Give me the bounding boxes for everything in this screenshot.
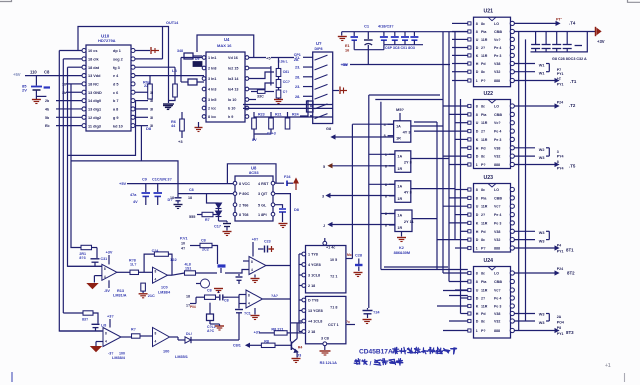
svg-text:11R: 11R bbox=[481, 121, 488, 125]
wire U8 row2 right long vertical bbox=[275, 194, 290, 342]
svg-text:h 9: h 9 bbox=[228, 115, 233, 119]
svg-text:D: D bbox=[476, 213, 479, 217]
svg-text:8T1: 8T1 bbox=[566, 248, 574, 253]
svg-text:11R: 11R bbox=[481, 305, 488, 309]
svg-text:348: 348 bbox=[177, 49, 183, 53]
svg-text:Io4 13: Io4 13 bbox=[228, 88, 238, 92]
svg-text:P4: P4 bbox=[557, 244, 561, 248]
U23 pin row 7 bbox=[468, 238, 471, 241]
U23 pin row 5 bbox=[468, 221, 471, 224]
svg-text:Pe 3: Pe 3 bbox=[494, 138, 501, 142]
U22 pin row 4 bbox=[468, 130, 471, 133]
U22 pin row 5 bbox=[468, 138, 471, 141]
svg-text:11R: 11R bbox=[481, 289, 488, 293]
svg-text:?A?: ?A? bbox=[271, 294, 278, 298]
wire emitter ground bbox=[296, 351, 298, 357]
U24 pin row 7 bbox=[468, 319, 471, 322]
svg-text:P?: P? bbox=[481, 79, 486, 83]
U22 pin row 7 bbox=[468, 155, 471, 158]
svg-text:LO: LO bbox=[494, 188, 499, 192]
svg-text:Pe 4: Pe 4 bbox=[494, 297, 501, 301]
wire R1 pin7 W1 bbox=[514, 71, 535, 73]
op-amp U13C bbox=[103, 328, 121, 347]
wire R2 pin7 W3 bbox=[514, 155, 535, 157]
capacitor second filter bbox=[157, 184, 159, 192]
svg-text:C61: C61 bbox=[283, 70, 289, 74]
IC U10 wrapper wire bbox=[78, 27, 169, 104]
red ground supply left bbox=[341, 32, 343, 36]
svg-text:8: 8 bbox=[476, 113, 478, 117]
U21 pin row 3 bbox=[468, 38, 471, 41]
svg-text:/: / bbox=[370, 361, 372, 368]
svg-text:V38: V38 bbox=[494, 230, 500, 234]
svg-text:+0?: +0? bbox=[252, 238, 259, 242]
wire U4 pin2 right bbox=[249, 67, 271, 69]
svg-text:8: 8 bbox=[476, 105, 478, 109]
svg-text:CB8i: CB8i bbox=[494, 280, 502, 284]
svg-text:D8: D8 bbox=[146, 126, 152, 131]
svg-text:3l: 3l bbox=[150, 91, 153, 95]
svg-text:seg 2: seg 2 bbox=[113, 57, 123, 61]
svg-text:W3: W3 bbox=[539, 231, 545, 235]
svg-text:4: 4 bbox=[248, 302, 250, 306]
feedback resistor 122 bbox=[154, 252, 168, 256]
svg-text:8: 8 bbox=[385, 224, 387, 228]
U10 pin row 6 bbox=[82, 90, 86, 94]
svg-text:P8: P8 bbox=[557, 326, 561, 330]
svg-text:M5?: M5? bbox=[396, 107, 405, 112]
svg-text:C8: C8 bbox=[201, 239, 206, 243]
U8 pin row 1 bbox=[233, 181, 237, 185]
svg-text:3b: 3b bbox=[62, 91, 66, 95]
ground below C8 bbox=[32, 99, 41, 101]
wire R3 pin6 W3 bbox=[514, 230, 535, 232]
svg-text:R24: R24 bbox=[292, 113, 299, 117]
U23 pin row 4 bbox=[468, 213, 471, 216]
svg-text:8: 8 bbox=[385, 194, 387, 198]
svg-text:kd 10: kd 10 bbox=[113, 124, 123, 128]
svg-text:+3V: +3V bbox=[106, 251, 113, 255]
S1 switch element 4 bbox=[315, 84, 328, 89]
svg-text:+5V: +5V bbox=[341, 63, 348, 67]
wire diode branch vertical bbox=[207, 194, 219, 203]
svg-text:Eb: Eb bbox=[45, 124, 49, 128]
ground below C17 bbox=[223, 231, 232, 233]
svg-text:K: K bbox=[476, 221, 479, 225]
wire extra feeder b bbox=[414, 130, 437, 132]
svg-text:Pe 3: Pe 3 bbox=[494, 54, 501, 58]
svg-text:3l: 3l bbox=[150, 107, 153, 111]
svg-text:C17: C17 bbox=[214, 225, 221, 229]
svg-text:D TY8: D TY8 bbox=[308, 299, 318, 303]
ground OA1 plus red triangle bbox=[88, 284, 98, 289]
wire feeders R3 left bbox=[455, 189, 468, 191]
wire OA2 output bbox=[168, 274, 173, 276]
svg-text:V32: V32 bbox=[494, 320, 500, 324]
svg-text:MAX 16: MAX 16 bbox=[217, 43, 232, 48]
wire feeders R1 left bbox=[452, 22, 468, 24]
svg-text:Vc?: Vc? bbox=[494, 38, 501, 42]
svg-text:+1: +1 bbox=[605, 363, 611, 369]
red arrow +3V bbox=[595, 27, 597, 36]
svg-text:CCT 1: CCT 1 bbox=[328, 323, 339, 327]
U22 pin row 2 bbox=[468, 113, 471, 116]
svg-text:C8: C8 bbox=[189, 188, 194, 192]
svg-text:4 RST: 4 RST bbox=[258, 182, 269, 186]
svg-text:C1: C1 bbox=[364, 24, 370, 29]
wire net 3 arrow bbox=[330, 195, 395, 197]
U23 pin row 1 bbox=[468, 188, 471, 191]
border artifact bottom-right marks bbox=[624, 373, 626, 382]
svg-text:Pe 4: Pe 4 bbox=[494, 130, 501, 134]
svg-text:1C0: 1C0 bbox=[161, 286, 168, 290]
capacitors C3-C6 row bbox=[383, 32, 385, 36]
ground OA4 red triangle bbox=[91, 347, 101, 352]
wire OA6 inputs bbox=[239, 294, 246, 296]
S1 switch element 2 bbox=[315, 65, 328, 70]
U10 pin row 3 bbox=[82, 65, 86, 69]
wire OA5 output diode DL1 bbox=[170, 336, 179, 338]
svg-text:?C1: ?C1 bbox=[244, 312, 251, 316]
svg-text:W3: W3 bbox=[539, 321, 545, 325]
wire R3 pin7 W3 bbox=[514, 239, 535, 241]
wire vertical x162.5 bbox=[162, 27, 164, 59]
M1 pin row 2 bbox=[302, 263, 306, 267]
svg-text:PT': PT' bbox=[556, 18, 562, 22]
svg-text:3: 3 bbox=[557, 150, 559, 154]
M1 pin row 4 bbox=[302, 284, 306, 288]
svg-text:H: H bbox=[476, 146, 479, 150]
wire U4 pin4 right bbox=[249, 83, 274, 89]
capacitor CE1 bbox=[353, 32, 355, 36]
svg-text:V32: V32 bbox=[494, 70, 500, 74]
op-amp U13A bbox=[102, 264, 117, 280]
svg-text:8?3: 8?3 bbox=[79, 256, 85, 260]
svg-text:G8 C28 8OC3 C32 A: G8 C28 8OC3 C32 A bbox=[552, 57, 587, 61]
red power tick right of S1 bbox=[333, 90, 339, 92]
svg-text:H: H bbox=[476, 230, 479, 234]
U22 pin row 6 bbox=[468, 146, 471, 149]
svg-text:Io2 15: Io2 15 bbox=[228, 67, 238, 71]
svg-text:3 QlT: 3 QlT bbox=[258, 192, 268, 196]
wire U10 right stub with net 3l bbox=[135, 116, 148, 118]
diode D2 bbox=[216, 211, 222, 216]
U22 pin row 8 bbox=[468, 163, 471, 166]
wire collector bbox=[296, 323, 298, 339]
feedback resistor OA4 bbox=[63, 312, 83, 314]
svg-text:R21: R21 bbox=[275, 113, 282, 117]
svg-text:D: D bbox=[476, 155, 479, 159]
wire U4 pin3 right elbow bbox=[249, 72, 274, 79]
svg-text:888: 888 bbox=[494, 163, 500, 167]
wire U4 pin5 right bbox=[249, 99, 256, 101]
U10 pin row 8 bbox=[82, 107, 86, 111]
wire G3 output bbox=[411, 188, 455, 190]
transistor J3 bbox=[290, 341, 292, 350]
wire G1 output bbox=[411, 125, 443, 127]
red power arrow right of U8 bbox=[295, 181, 297, 190]
wire U4 bottom verticals bbox=[253, 134, 255, 140]
capacitor C24 bbox=[367, 308, 369, 310]
svg-text:33C: 33C bbox=[257, 94, 264, 98]
svg-text:R3 12L1A: R3 12L1A bbox=[320, 361, 338, 365]
wire cap bank bottom bus bbox=[531, 32, 588, 52]
wire R4 pin8 to T3 bbox=[514, 330, 556, 332]
wire U10 pin1 right with power tick bbox=[135, 50, 150, 52]
svg-text:10 cs: 10 cs bbox=[88, 49, 98, 53]
wire U10 pin4 right to MAX232 bbox=[135, 75, 204, 77]
wire R1 pin8 to T1 bbox=[514, 80, 556, 82]
U10 pin row 10 bbox=[82, 124, 86, 128]
red ground below OA6 bbox=[254, 308, 256, 315]
op-amp U3B comparator bbox=[246, 290, 263, 308]
U8 pin row 3 bbox=[233, 203, 237, 207]
svg-text:8c: 8c bbox=[481, 188, 485, 192]
svg-text:3 In5: 3 In5 bbox=[208, 98, 216, 102]
wire U4 pin1 right +5 bbox=[249, 57, 266, 59]
svg-text:21C: 21C bbox=[148, 294, 155, 298]
svg-text:18 clk: 18 clk bbox=[88, 57, 99, 61]
svg-text:8: 8 bbox=[476, 272, 478, 276]
svg-text:4 In3: 4 In3 bbox=[208, 88, 216, 92]
svg-text:P?: P? bbox=[481, 247, 486, 251]
IC U4 wrapper bbox=[197, 35, 254, 58]
svg-text:8: 8 bbox=[476, 280, 478, 284]
wire U10 pin2 right bbox=[135, 58, 163, 60]
gate G4 input wires bbox=[389, 213, 395, 215]
svg-text:8: 8 bbox=[104, 267, 106, 271]
ground below L8 bbox=[163, 103, 174, 105]
wire R4 pin1 to T2b bbox=[514, 272, 556, 274]
S1 switch element 3 bbox=[315, 75, 328, 80]
border artifact top-right bbox=[628, 0, 640, 2]
wire bus x380.9 bbox=[380, 102, 382, 270]
resistor network right of U4 three stacked bbox=[276, 69, 281, 77]
wire bus x368 bbox=[368, 95, 370, 308]
svg-text:+3?: +3? bbox=[107, 315, 114, 319]
U4 pin row 2 bbox=[202, 66, 206, 70]
svg-text:J: J bbox=[323, 224, 325, 228]
svg-text:.T5: .T5 bbox=[569, 164, 576, 169]
svg-text:8c: 8c bbox=[481, 70, 485, 74]
wire W1 jog bbox=[548, 64, 550, 72]
S1 switch element 1 bbox=[315, 55, 328, 60]
wire R2 pin8 to T5 bbox=[514, 164, 556, 166]
svg-text:DL!: DL! bbox=[186, 332, 192, 336]
red ground emitter bbox=[292, 358, 301, 360]
svg-text:R13: R13 bbox=[117, 289, 124, 293]
svg-text:8c: 8c bbox=[481, 155, 485, 159]
svg-text:4: 4 bbox=[384, 123, 386, 127]
gate G1 bbox=[394, 121, 411, 142]
svg-text:4: 4 bbox=[155, 278, 157, 282]
capacitor C8 bbox=[35, 76, 37, 86]
U8 pin row 4 bbox=[233, 212, 237, 216]
svg-text:K: K bbox=[476, 138, 479, 142]
svg-text:28.: 28. bbox=[295, 75, 300, 79]
svg-text:13 YCE8: 13 YCE8 bbox=[308, 309, 323, 313]
svg-text:21.: 21. bbox=[295, 56, 300, 60]
ground below C24 bbox=[363, 319, 372, 321]
svg-text:?2 1: ?2 1 bbox=[330, 275, 337, 279]
ground below C28 bbox=[354, 272, 363, 274]
svg-text:?c: ?c bbox=[346, 320, 350, 324]
wire bus v4 bbox=[71, 84, 81, 248]
svg-text:4: 4 bbox=[251, 268, 253, 272]
svg-text:47a: 47a bbox=[130, 193, 137, 197]
U21 pin row 6 bbox=[468, 62, 471, 65]
IC U24 body bbox=[474, 267, 511, 339]
svg-text:K2: K2 bbox=[399, 246, 404, 250]
svg-text:U: U bbox=[476, 121, 479, 125]
ground above oscillator bbox=[214, 288, 223, 290]
wire S1 bottom elbows bbox=[300, 100, 308, 116]
wire OA6 output bbox=[263, 298, 291, 300]
svg-text:3 1CL8: 3 1CL8 bbox=[308, 274, 320, 278]
svg-text:C1+3: C1+3 bbox=[267, 132, 276, 136]
svg-text:W1: W1 bbox=[539, 64, 545, 68]
svg-text:28.: 28. bbox=[295, 95, 300, 99]
S1 switch element 6 bbox=[315, 104, 328, 109]
svg-text:Pd: Pd bbox=[481, 62, 486, 66]
U22 pin row 1 bbox=[468, 104, 471, 107]
svg-text:8: 8 bbox=[476, 22, 478, 26]
svg-text:5: 5 bbox=[323, 165, 325, 169]
svg-text:LO: LO bbox=[494, 272, 499, 276]
U4 pin row 3 bbox=[202, 77, 206, 81]
svg-text:11 dig3: 11 dig3 bbox=[88, 124, 101, 128]
svg-text:R4: R4 bbox=[298, 346, 303, 350]
svg-text:4: 4 bbox=[105, 340, 107, 344]
svg-text:4Y 3: 4Y 3 bbox=[403, 130, 412, 135]
svg-text:Vc?: Vc? bbox=[494, 289, 501, 293]
wire OA1 negative supply bbox=[108, 280, 110, 288]
capacitor C8 osc bbox=[216, 296, 220, 298]
svg-text:1A: 1A bbox=[397, 154, 402, 158]
svg-text:dp 1: dp 1 bbox=[113, 49, 121, 53]
ground dark below left bbox=[163, 105, 173, 107]
op-amp U3 comparator bbox=[249, 257, 266, 275]
svg-text:PY4: PY4 bbox=[557, 155, 564, 159]
wire long mid horizontals bbox=[381, 269, 468, 271]
U24 pin row 4 bbox=[468, 296, 471, 299]
wire R1 pin6 W1 bbox=[514, 63, 535, 65]
svg-text:8c: 8c bbox=[481, 272, 485, 276]
svg-text:V38: V38 bbox=[494, 62, 500, 66]
svg-text:2Y 11: 2Y 11 bbox=[404, 219, 415, 224]
svg-text:18: 18 bbox=[186, 295, 190, 299]
U4 pin row 4 bbox=[202, 87, 206, 91]
svg-text:LM35/1: LM35/1 bbox=[175, 355, 188, 359]
svg-text:Vc?: Vc? bbox=[494, 205, 501, 209]
svg-text:e 4: e 4 bbox=[113, 74, 119, 78]
wire MAX to S1 row c bbox=[254, 116, 333, 118]
M2 pin row 4 bbox=[302, 330, 306, 334]
IC U4 body bbox=[206, 52, 245, 122]
op-amp U13D bbox=[153, 328, 170, 347]
feedback resistor 2R1 bbox=[81, 245, 92, 249]
svg-text:1A: 1A bbox=[397, 214, 402, 218]
svg-text:W3: W3 bbox=[539, 156, 545, 160]
wire stub left of U4 bbox=[181, 57, 202, 59]
svg-text:c 6: c 6 bbox=[113, 91, 118, 95]
U21 pin row 5 bbox=[468, 54, 471, 57]
wire OA4 plus input bbox=[96, 341, 103, 343]
svg-text:8c: 8c bbox=[481, 320, 485, 324]
wire R4 pin6 W3 bbox=[514, 313, 535, 315]
wire cap bank bus bbox=[384, 44, 423, 46]
svg-text:888: 888 bbox=[494, 79, 500, 83]
svg-text:1 In1: 1 In1 bbox=[208, 56, 216, 60]
capacitor electrolytic CE2 bbox=[367, 32, 369, 39]
dark ground x178 bbox=[174, 204, 183, 206]
IC M1 body bbox=[306, 246, 346, 293]
M2 pin row 2 bbox=[302, 309, 306, 313]
svg-text:18: 18 bbox=[170, 196, 174, 200]
svg-text:CC?: CC? bbox=[283, 80, 290, 84]
svg-text:V32: V32 bbox=[494, 238, 500, 242]
svg-text:1A: 1A bbox=[396, 124, 401, 128]
wire feeders R4 left bbox=[443, 272, 468, 274]
svg-text:PO4: PO4 bbox=[557, 321, 564, 325]
feedback capacitor OA4 bbox=[92, 323, 100, 325]
svg-text:PY1: PY1 bbox=[557, 72, 564, 76]
svg-text:U: U bbox=[476, 205, 479, 209]
svg-text:DIP8: DIP8 bbox=[315, 47, 323, 51]
IC U22 body bbox=[474, 100, 511, 169]
svg-text:+4 1CL8: +4 1CL8 bbox=[308, 320, 322, 324]
svg-text:4V: 4V bbox=[133, 200, 138, 204]
wire G2 output bbox=[411, 158, 449, 160]
svg-text:8: 8 bbox=[248, 294, 250, 298]
svg-text:D: D bbox=[476, 297, 479, 301]
svg-text:1 8Pl: 1 8Pl bbox=[258, 213, 267, 217]
svg-text:3 In1: 3 In1 bbox=[208, 77, 216, 81]
svg-text:L/8: L/8 bbox=[101, 324, 106, 328]
wire U10 right stub with net 3l bbox=[135, 100, 148, 102]
svg-text:4b: 4b bbox=[45, 107, 49, 111]
svg-text:2 18: 2 18 bbox=[308, 330, 315, 334]
svg-text:H: H bbox=[476, 62, 479, 66]
wire right bus x525.5 bbox=[525, 39, 527, 321]
svg-text:R7: R7 bbox=[205, 218, 210, 222]
svg-text:8c: 8c bbox=[481, 22, 485, 26]
svg-text:8: 8 bbox=[105, 332, 107, 336]
wire right bus x518.7 bbox=[518, 32, 520, 331]
svg-text:Io 10: Io 10 bbox=[228, 98, 236, 102]
svg-text:110: 110 bbox=[30, 70, 37, 75]
M2 pin row 1 bbox=[302, 298, 306, 302]
svg-text:U: U bbox=[476, 289, 479, 293]
svg-text:U22: U22 bbox=[484, 91, 494, 97]
wire to OA3 bbox=[225, 270, 249, 274]
wire OA1 plus input bbox=[94, 275, 102, 277]
svg-text:D8: D8 bbox=[294, 208, 299, 212]
svg-text:4?: 4? bbox=[181, 247, 186, 251]
wire OA4 output bbox=[121, 336, 132, 338]
svg-text:OUT14: OUT14 bbox=[166, 21, 179, 25]
svg-text:C?: C? bbox=[283, 90, 288, 94]
svg-text:LO: LO bbox=[494, 22, 499, 26]
svg-text:13 Vdd: 13 Vdd bbox=[88, 74, 101, 78]
svg-text:18: 18 bbox=[62, 82, 66, 86]
svg-text:+5V: +5V bbox=[119, 181, 127, 186]
svg-text:8c: 8c bbox=[481, 238, 485, 242]
wire M1 right bbox=[346, 258, 353, 260]
svg-text:3 C8: 3 C8 bbox=[321, 337, 329, 341]
svg-text:Vd 16: Vd 16 bbox=[228, 56, 238, 60]
M1 pin row 1 bbox=[302, 252, 306, 256]
